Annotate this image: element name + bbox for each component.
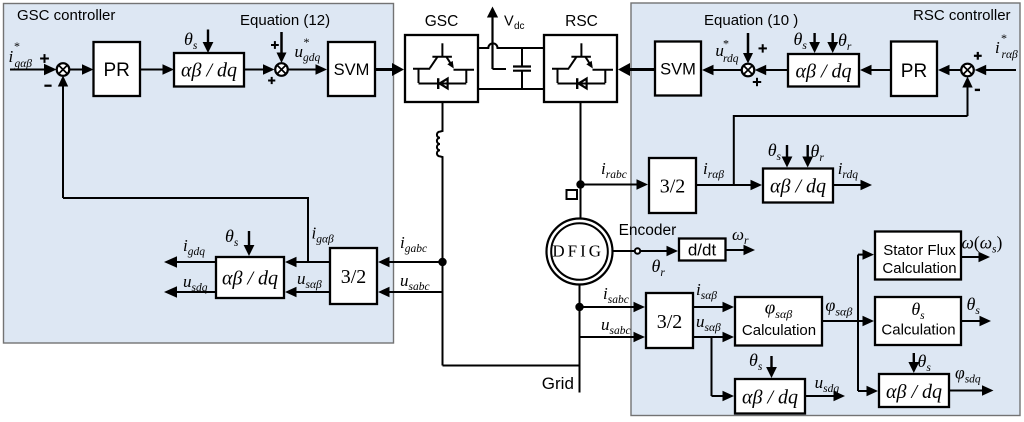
svg-text:rαβ: rαβ: [1002, 49, 1019, 61]
svg-text:RSC controller: RSC controller: [913, 7, 1011, 24]
svg-text:αβ / dq: αβ / dq: [795, 61, 851, 83]
svg-text:*: *: [304, 35, 310, 49]
svg-text:Encoder: Encoder: [619, 222, 677, 239]
svg-text:gdq: gdq: [303, 52, 321, 64]
svg-text:Calculation: Calculation: [881, 322, 955, 339]
svg-text:u: u: [295, 42, 304, 61]
svg-text:3/2: 3/2: [341, 266, 367, 288]
svg-text:3/2: 3/2: [657, 311, 683, 333]
svg-text:d/dt: d/dt: [688, 241, 717, 260]
svg-text:Grid: Grid: [542, 374, 574, 393]
svg-text:αβ / dq: αβ / dq: [222, 268, 278, 290]
svg-text:gαβ: gαβ: [15, 58, 33, 70]
svg-text:i: i: [9, 47, 14, 66]
svg-text:V: V: [504, 14, 514, 30]
svg-text:*: *: [14, 39, 20, 53]
svg-text:3/2: 3/2: [660, 176, 686, 198]
svg-text:i: i: [995, 38, 1000, 57]
svg-text:Calculation: Calculation: [882, 260, 956, 277]
svg-text:DFIG: DFIG: [552, 242, 604, 261]
svg-text:rdq: rdq: [723, 53, 739, 65]
svg-text:αβ / dq: αβ / dq: [742, 387, 798, 409]
svg-text:*: *: [1001, 31, 1007, 45]
svg-text:RSC: RSC: [565, 13, 598, 30]
svg-text:αβ / dq: αβ / dq: [181, 60, 237, 82]
svg-text:Equation (10 ): Equation (10 ): [704, 12, 798, 29]
svg-text:Equation (12): Equation (12): [240, 12, 330, 29]
svg-text:dc: dc: [514, 21, 525, 32]
svg-text:Calculation: Calculation: [742, 322, 816, 339]
svg-text:GSC controller: GSC controller: [17, 7, 115, 24]
svg-text:ω(ωs): ω(ωs): [962, 233, 1003, 256]
svg-text:Stator Flux: Stator Flux: [883, 242, 956, 259]
svg-text:αβ / dq: αβ / dq: [770, 176, 826, 198]
svg-text:GSC: GSC: [425, 13, 459, 30]
svg-text:*: *: [723, 37, 729, 51]
svg-text:PR: PR: [901, 61, 927, 82]
svg-text:PR: PR: [103, 60, 129, 81]
svg-text:SVM: SVM: [334, 61, 370, 79]
svg-text:SVM: SVM: [660, 61, 696, 79]
svg-text:αβ / dq: αβ / dq: [886, 381, 942, 403]
